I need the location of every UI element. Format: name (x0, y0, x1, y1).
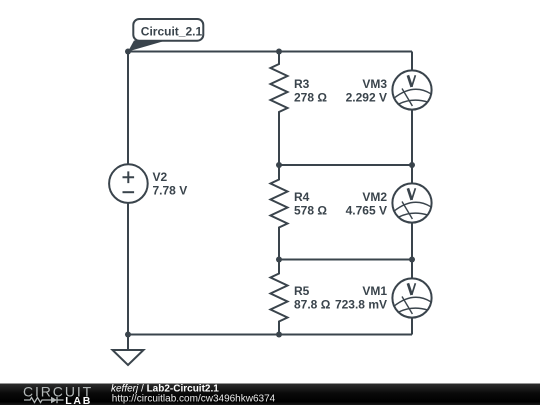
svg-text:R3: R3 (294, 77, 310, 91)
node R3-R4 junction (276, 162, 282, 168)
node A top-left junction (125, 49, 131, 55)
svg-text:278 Ω: 278 Ω (294, 90, 327, 104)
svg-text:LAB: LAB (65, 395, 92, 405)
svg-text:V2: V2 (153, 170, 168, 184)
svg-text:R4: R4 (294, 190, 310, 204)
voltmeter VM1 (392, 278, 431, 317)
svg-text:87.8 Ω: 87.8 Ω (294, 298, 331, 312)
voltmeter VM3 (392, 70, 431, 109)
svg-text:723.8 mV: 723.8 mV (335, 298, 387, 312)
resistor R5 (271, 260, 288, 335)
svg-text:Circuit_2.1: Circuit_2.1 (141, 25, 203, 39)
voltage source V2 (109, 164, 148, 203)
wire left rail (through V2 position) (127, 52, 129, 335)
ground (113, 335, 144, 366)
wire right rail (through voltmeters) (411, 52, 413, 335)
svg-text:VM3: VM3 (362, 77, 387, 91)
resistor R3 (271, 52, 288, 166)
node VM2-VM1 junction (409, 257, 415, 263)
node bottom of R5 (276, 332, 282, 338)
svg-text:2.292 V: 2.292 V (346, 90, 387, 104)
voltmeter VM2 (392, 183, 431, 222)
svg-text:R5: R5 (294, 284, 310, 298)
wire bottom rail from ground node to right rail (128, 334, 412, 336)
svg-text:578 Ω: 578 Ω (294, 203, 327, 217)
node ground junction (125, 332, 131, 338)
wire top rail from node A to right rail (128, 51, 412, 53)
node VM3-VM2 junction (409, 162, 415, 168)
node R4-R5 junction (276, 257, 282, 263)
wire middle rail between R4 and R5 to VM1 (279, 259, 412, 261)
svg-text:http://circuitlab.com/cw3496hk: http://circuitlab.com/cw3496hkw6374 (112, 394, 276, 405)
resistor R4 (271, 165, 288, 260)
wire middle rail between R3 and R4 to VM2 (279, 164, 412, 166)
footer bar (0, 383, 540, 405)
footer logo squiggle and diode (24, 397, 64, 403)
svg-text:7.78 V: 7.78 V (153, 183, 188, 197)
svg-text:4.765 V: 4.765 V (346, 203, 387, 217)
node label Circuit_2.1 callout (128, 19, 203, 52)
svg-text:VM2: VM2 (362, 190, 387, 204)
svg-text:VM1: VM1 (362, 284, 387, 298)
node top of R3 (276, 49, 282, 55)
